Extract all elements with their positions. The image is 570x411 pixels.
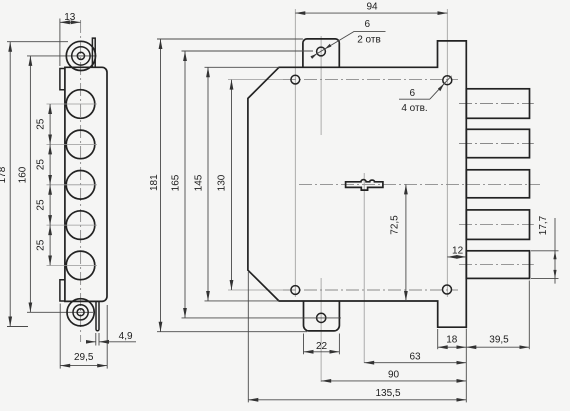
bolt 2: [466, 129, 529, 157]
svg-text:178: 178: [0, 166, 8, 183]
vertical centerline through tab holes bottom segment: [320, 278, 322, 382]
svg-text:72,5: 72,5: [390, 215, 401, 235]
dimension 181: [157, 38, 303, 40]
hole top-right: [443, 76, 452, 85]
bolt hole circle 1: [66, 90, 95, 119]
top mounting tab: [303, 39, 339, 67]
bolt 4: [466, 210, 529, 240]
bolt 3: [466, 170, 529, 198]
svg-text:90: 90: [388, 370, 400, 381]
svg-text:22: 22: [316, 341, 328, 352]
horizontal centerline top holes: [228, 79, 283, 81]
dimension 12: [447, 256, 466, 258]
dimension 165: [182, 50, 314, 52]
svg-text:145: 145: [193, 174, 204, 191]
bottom mounting tab: [304, 301, 340, 331]
svg-text:130: 130: [217, 174, 228, 191]
main horizontal centerline through keyhole: [299, 183, 540, 185]
svg-text:12: 12: [452, 245, 464, 256]
bottom roller inner circle: [77, 309, 84, 316]
bottom roller outer circle: [67, 299, 94, 326]
svg-text:25: 25: [35, 239, 46, 251]
bolt hole circle 2: [66, 130, 95, 159]
svg-text:6: 6: [365, 19, 371, 30]
dimension 17,7: [531, 250, 559, 252]
bottom-left small tab: [60, 280, 65, 301]
hole bottom-right: [443, 285, 452, 294]
svg-text:29,5: 29,5: [74, 352, 94, 363]
dimension 145: [205, 66, 280, 68]
bolt centerline 5: [459, 264, 534, 266]
svg-text:160: 160: [18, 166, 29, 183]
svg-text:165: 165: [171, 174, 182, 191]
bolt centerline 1: [459, 103, 534, 105]
top roller inner circle: [77, 52, 84, 59]
hole in bottom tab: [317, 313, 326, 322]
svg-text:4,9: 4,9: [119, 331, 133, 342]
svg-text:25: 25: [35, 118, 46, 130]
hole top-left: [291, 75, 300, 84]
svg-text:181: 181: [149, 174, 160, 191]
svg-text:2 отв: 2 отв: [357, 34, 381, 45]
keyhole slot: [346, 180, 383, 191]
bolt hole circle 5: [66, 251, 95, 280]
dimension 72,5: [405, 184, 407, 301]
bolt hole circle 3: [66, 171, 95, 200]
horizontal centerline bottom holes: [228, 289, 283, 291]
dimension 25 stack: [49, 104, 51, 144]
dimension 94: [295, 12, 447, 14]
centerline horizontal bottom roller: [27, 311, 93, 313]
dimension 160: [29, 56, 31, 312]
faceplate side plate body: [65, 67, 107, 301]
bolt 1: [466, 89, 529, 119]
dimension 13: [59, 19, 61, 67]
vertical centerline through left holes: [294, 9, 296, 297]
hole bottom-left: [291, 286, 300, 295]
vertical centerline through right holes: [446, 9, 448, 297]
dimension 29,5: [59, 304, 61, 369]
dimension 90: [321, 380, 466, 382]
bolt centerline 4: [459, 224, 534, 226]
dimension 18: [437, 329, 439, 349]
svg-text:6: 6: [410, 88, 416, 99]
keyhole vertical centerline: [363, 173, 365, 363]
bolt 5: [466, 251, 529, 279]
lock body outline: [248, 41, 466, 327]
vertical centerline through tab holes top segment: [320, 36, 322, 135]
svg-text:25: 25: [35, 159, 46, 171]
dimension 178: [7, 41, 68, 43]
svg-text:39,5: 39,5: [489, 335, 509, 346]
dimension 22: [303, 334, 305, 355]
dimension 63: [364, 362, 466, 364]
svg-text:18: 18: [446, 335, 458, 346]
dimension 135,5: [247, 272, 249, 402]
bolt hole circle 4: [66, 211, 95, 240]
dimension 4,9: [95, 333, 97, 346]
top roller middle circle: [72, 47, 90, 65]
top strip bar: [92, 38, 95, 67]
svg-text:135,5: 135,5: [375, 388, 400, 399]
bottom strip bar: [96, 301, 99, 330]
svg-text:13: 13: [64, 12, 76, 23]
svg-text:4 отв.: 4 отв.: [401, 103, 427, 114]
svg-text:25: 25: [35, 199, 46, 211]
top-left small tab: [60, 69, 65, 90]
hole in top tab: [317, 47, 326, 56]
centerline vertical axis left view: [80, 20, 82, 342]
bolt centerline 2: [459, 143, 534, 145]
circle center extension lines: [47, 103, 98, 105]
svg-text:17,7: 17,7: [538, 215, 549, 235]
centerline horizontal top roller: [27, 55, 97, 57]
bottom roller middle circle: [73, 305, 88, 320]
svg-text:63: 63: [409, 351, 421, 362]
svg-text:94: 94: [366, 2, 378, 13]
dimension 39,5: [528, 281, 530, 350]
dimension 130: [231, 80, 233, 290]
top roller outer circle: [66, 41, 95, 70]
